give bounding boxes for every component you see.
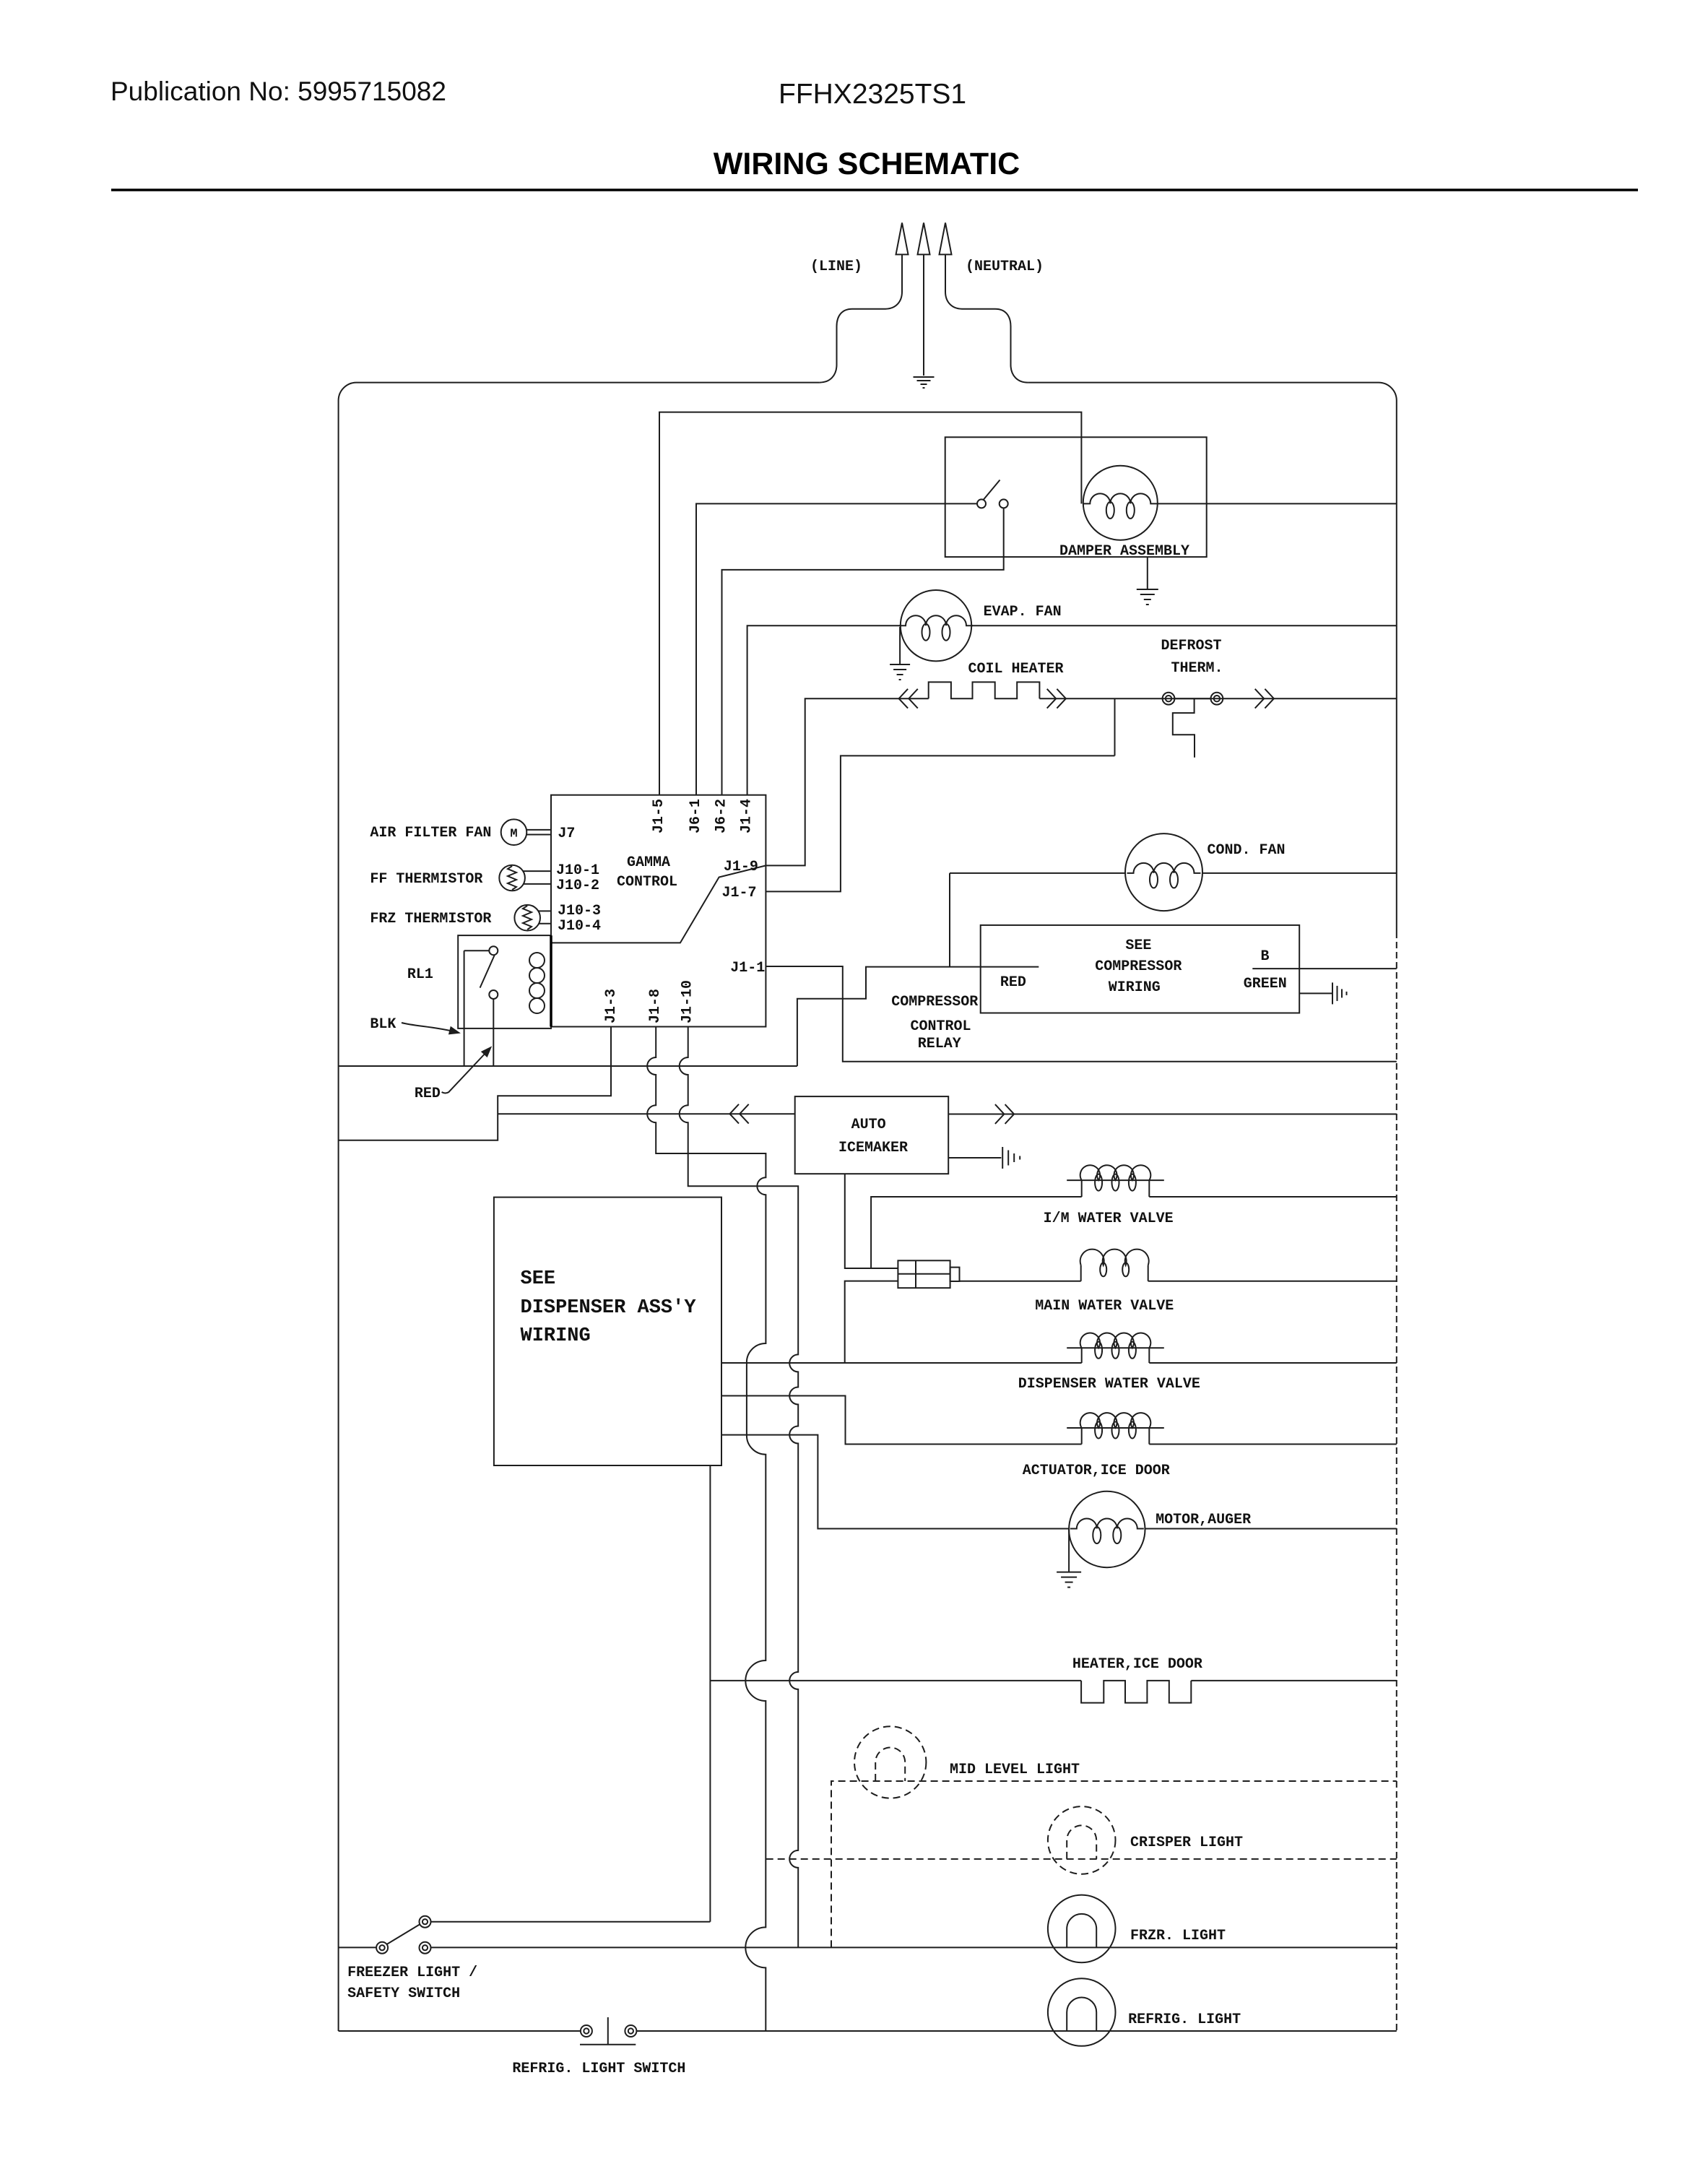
- wire freezer switch upper throw to dispenser box drop: [431, 1921, 711, 1923]
- wire compressor B terminal to right rail: [1252, 968, 1397, 969]
- svg-text:J1-10: J1-10: [680, 980, 696, 1023]
- wire damper motor to right rail: [1158, 503, 1397, 504]
- svg-text:J1-8: J1-8: [647, 989, 664, 1023]
- svg-text:GREEN: GREEN: [1244, 976, 1287, 992]
- wire defrost thermostat to right rail: [1223, 698, 1397, 699]
- wire RL1 top terminal to BLK riser: [464, 950, 490, 951]
- svg-text:B: B: [1261, 948, 1270, 965]
- svg-text:MID LEVEL LIGHT: MID LEVEL LIGHT: [950, 1762, 1080, 1778]
- relay RL1 switch: [480, 946, 498, 999]
- svg-text:EVAP. FAN: EVAP. FAN: [984, 604, 1062, 620]
- svg-text:J1-1: J1-1: [730, 960, 765, 976]
- solenoid DISPENSER WATER VALVE: [1081, 1348, 1083, 1363]
- solenoid MAIN WATER VALVE: [1080, 1265, 1082, 1281]
- plug prong arrow (NEUTRAL): [940, 223, 952, 255]
- svg-text:RELAY: RELAY: [918, 1036, 961, 1052]
- wire outer-left edge to freezer safety switch: [339, 1946, 376, 1948]
- water valve terminal block: [898, 1260, 959, 1288]
- svg-text:J6-2: J6-2: [714, 799, 730, 833]
- svg-text:HEATER,ICE DOOR: HEATER,ICE DOOR: [1072, 1656, 1202, 1673]
- svg-text:MAIN WATER VALVE: MAIN WATER VALVE: [1035, 1298, 1174, 1315]
- wire actuator feed from dispenser box: [721, 1396, 1082, 1445]
- svg-text:COND. FAN: COND. FAN: [1208, 842, 1286, 859]
- svg-text:WIRING SCHEMATIC: WIRING SCHEMATIC: [714, 147, 1020, 181]
- svg-text:J10-3: J10-3: [558, 903, 601, 919]
- wire J1-7 riser to defrost junction: [766, 755, 1114, 891]
- svg-text:M: M: [510, 828, 517, 841]
- wire J6-1 to damper switch: [696, 503, 977, 794]
- svg-text:J6-1: J6-1: [688, 799, 704, 833]
- wire freezer light rail: [431, 1946, 1397, 1948]
- svg-text:FFHX2325TS1: FFHX2325TS1: [779, 79, 966, 110]
- svg-text:SAFETY SWITCH: SAFETY SWITCH: [347, 1985, 460, 2002]
- auto icemaker box: [795, 1096, 949, 1174]
- svg-text:J10-2: J10-2: [556, 878, 599, 894]
- wire top rail left segment: [356, 382, 820, 384]
- node junction to J1-7 riser: [1114, 698, 1116, 755]
- wire damper switch to J6-2: [722, 508, 1004, 794]
- svg-text:(NEUTRAL): (NEUTRAL): [966, 259, 1044, 275]
- svg-text:FREEZER LIGHT /: FREEZER LIGHT /: [347, 1965, 477, 1981]
- refrig light switch: [580, 2017, 636, 2045]
- ground symbol at plug: [914, 376, 935, 378]
- solenoid I/M WATER VALVE: [1081, 1180, 1083, 1197]
- motor evap fan: [901, 590, 971, 661]
- wire dispenser water valve to right rail: [1149, 1362, 1397, 1364]
- svg-text:RED: RED: [1000, 974, 1026, 991]
- wire BLK rail from outer-left edge to compressor relay riser: [339, 1065, 797, 1067]
- svg-text:BLK: BLK: [370, 1016, 396, 1033]
- freezer light / safety switch: [376, 1916, 430, 1954]
- heater element HEATER,ICE DOOR: [1081, 1681, 1191, 1703]
- lamp REFRIG. LIGHT: [1048, 1978, 1116, 2046]
- svg-text:DISPENSER WATER VALVE: DISPENSER WATER VALVE: [1018, 1376, 1200, 1393]
- svg-text:ICEMAKER: ICEMAKER: [838, 1140, 908, 1156]
- wire crisper light run (optional): [766, 1858, 1397, 1860]
- thermistor FF: [499, 865, 525, 891]
- wire top rail right segment: [1028, 383, 1397, 400]
- wire J1-5 riser: [659, 412, 1081, 795]
- motor cond fan: [1125, 833, 1202, 911]
- wire defrost thermostat linkage step: [1173, 698, 1195, 757]
- dispenser assembly box: [494, 1198, 721, 1465]
- svg-text:(LINE): (LINE): [810, 259, 862, 275]
- svg-text:COMPRESSOR: COMPRESSOR: [1095, 958, 1182, 975]
- svg-text:GAMMA: GAMMA: [627, 854, 670, 871]
- wire heater ice door run: [710, 1680, 1081, 1681]
- svg-text:WIRING: WIRING: [521, 1325, 591, 1347]
- wire outer-left edge: [339, 383, 356, 2031]
- plug prong arrow (LINE): [896, 223, 909, 255]
- damper assembly box: [945, 437, 1207, 557]
- wire motor auger to right rail: [1145, 1528, 1397, 1530]
- connector chevrons into coil heater: [899, 689, 909, 709]
- wire cond fan branch riser: [949, 873, 950, 967]
- motor M air filter fan: [501, 819, 527, 845]
- svg-text:AUTO: AUTO: [851, 1117, 886, 1133]
- motor damper assembly: [1083, 466, 1158, 540]
- svg-text:COIL HEATER: COIL HEATER: [968, 661, 1064, 677]
- wire BLK riser: [464, 950, 465, 1066]
- svg-text:Publication No: 5995715082: Publication No: 5995715082: [110, 77, 446, 106]
- compressor wiring box: [981, 925, 1300, 1013]
- svg-text:REFRIG. LIGHT SWITCH: REFRIG. LIGHT SWITCH: [512, 2061, 685, 2077]
- ground symbol below evap fan: [899, 627, 901, 664]
- ground symbol below motor auger: [1068, 1529, 1070, 1572]
- wire outer-right edge (neutral rail): [1396, 400, 1397, 932]
- defrost thermostat DEFROST THERM.: [1163, 693, 1223, 705]
- svg-text:CONTROL: CONTROL: [911, 1018, 971, 1035]
- ground symbol at compressor GREEN: [1332, 982, 1333, 1004]
- svg-text:DISPENSER ASS'Y: DISPENSER ASS'Y: [521, 1297, 697, 1319]
- wire J1-1 to right rail: [766, 966, 1396, 1062]
- gamma control board bevel edge: [551, 865, 766, 943]
- motor auger MOTOR,AUGER: [1069, 1491, 1145, 1567]
- wire main water valve lead: [960, 1281, 1081, 1282]
- connector chevrons after coil heater: [1047, 689, 1057, 709]
- wire icemaker bottom drop to water valve block: [845, 1174, 898, 1268]
- wire air filter fan to J7 (double lead): [526, 829, 551, 831]
- wire FRZ thermistor to J10-3: [539, 910, 552, 911]
- wire J1-10 long run to freezer light rail: [680, 1027, 798, 1948]
- svg-text:DEFROST: DEFROST: [1161, 638, 1222, 654]
- svg-text:J1-4: J1-4: [739, 799, 755, 833]
- wire actuator to right rail: [1149, 1444, 1397, 1445]
- svg-text:J1-9: J1-9: [724, 859, 758, 875]
- wire RL1 lower terminal drop: [493, 999, 494, 1066]
- wire evap fan to right rail: [971, 625, 1397, 626]
- svg-text:I/M WATER VALVE: I/M WATER VALVE: [1044, 1211, 1174, 1227]
- wire power plug NEUTRAL prong lead: [945, 254, 1028, 382]
- ground symbol below damper assembly: [1147, 557, 1148, 589]
- svg-text:REFRIG. LIGHT: REFRIG. LIGHT: [1128, 2011, 1241, 2028]
- wire mid level light run (optional): [831, 1781, 1397, 1947]
- wire FF thermistor to J10-2: [524, 883, 552, 885]
- svg-text:CRISPER LIGHT: CRISPER LIGHT: [1130, 1835, 1243, 1851]
- ground symbol at icemaker: [1002, 1147, 1003, 1169]
- heater element COIL HEATER: [929, 682, 1040, 698]
- wire J1-4 to evap fan: [747, 625, 901, 794]
- svg-text:CONTROL: CONTROL: [617, 874, 677, 891]
- lamp MID LEVEL LIGHT (optional): [854, 1726, 926, 1798]
- wire bottom rail right segment (refrig light rail): [636, 2030, 1396, 2032]
- wire J1-8 long run to refrig light rail: [647, 1027, 766, 2032]
- connector chevrons to right rail: [1255, 689, 1265, 709]
- svg-text:DAMPER ASSEMBLY: DAMPER ASSEMBLY: [1059, 543, 1189, 560]
- svg-text:FRZR. LIGHT: FRZR. LIGHT: [1130, 1928, 1226, 1944]
- svg-text:FF THERMISTOR: FF THERMISTOR: [370, 871, 482, 888]
- svg-text:COMPRESSOR: COMPRESSOR: [891, 994, 978, 1010]
- solenoid ACTUATOR,ICE DOOR: [1081, 1428, 1083, 1445]
- wire J1-9 riser to coil heater: [766, 698, 928, 865]
- wire FRZ thermistor to J10-4: [539, 923, 552, 924]
- relay RL1 box: [458, 935, 551, 1028]
- svg-text:J7: J7: [558, 826, 575, 842]
- svg-text:MOTOR,AUGER: MOTOR,AUGER: [1156, 1512, 1251, 1528]
- svg-text:THERM.: THERM.: [1171, 660, 1223, 677]
- wire cond fan to right rail: [1202, 872, 1397, 874]
- svg-text:J10-4: J10-4: [558, 918, 601, 935]
- svg-text:RED: RED: [415, 1086, 441, 1102]
- wire power plug LINE prong lead: [820, 254, 902, 382]
- svg-text:ACTUATOR,ICE DOOR: ACTUATOR,ICE DOOR: [1023, 1463, 1170, 1479]
- svg-text:RL1: RL1: [407, 966, 433, 983]
- wire coil heater to defrost thermostat: [1039, 698, 1223, 699]
- lamp CRISPER LIGHT (optional): [1048, 1806, 1116, 1874]
- thermistor FRZ: [514, 905, 540, 931]
- wire I/M water valve to right rail: [1149, 1196, 1397, 1198]
- svg-text:FRZ THERMISTOR: FRZ THERMISTOR: [370, 911, 491, 927]
- wire icemaker to right rail: [948, 1114, 1397, 1115]
- wire bottom rail left segment (to refrig light switch): [339, 2030, 581, 2032]
- wire compressor control relay feed: [797, 967, 1039, 1066]
- wire dispenser box bottom drop to freezer safety switch: [709, 1465, 711, 1922]
- svg-text:SEE: SEE: [1125, 937, 1151, 954]
- connector chevrons icemaker left: [730, 1104, 740, 1124]
- gamma control board outline: [551, 795, 766, 1027]
- svg-text:J1-3: J1-3: [603, 989, 620, 1023]
- wire compressor GREEN terminal to ground: [1299, 992, 1332, 994]
- connector chevrons icemaker right: [995, 1104, 1005, 1124]
- wire main water valve to right rail: [1148, 1281, 1397, 1282]
- wire icemaker ground lead: [948, 1157, 1001, 1159]
- wire I/M water valve left lead: [871, 1197, 1082, 1268]
- wire dispenser water valve run: [721, 1362, 1082, 1364]
- wire valve block bottom to dispenser valve junction: [845, 1281, 898, 1363]
- damper door switch: [977, 480, 1008, 508]
- relay RL1 coil: [529, 953, 545, 1013]
- svg-text:WIRING: WIRING: [1109, 979, 1161, 996]
- plug prong arrow (ground): [918, 223, 930, 255]
- wire heater ice door to right rail: [1191, 1680, 1397, 1681]
- svg-text:SEE: SEE: [521, 1268, 556, 1290]
- svg-text:AIR FILTER FAN: AIR FILTER FAN: [370, 825, 491, 841]
- wire J1-3 to outer-left edge: [339, 1027, 611, 1140]
- header rule: [111, 189, 1638, 191]
- wire FF thermistor to J10-1: [524, 870, 552, 872]
- svg-text:J10-1: J10-1: [556, 862, 599, 879]
- wire motor auger feed from dispenser box: [721, 1435, 1069, 1529]
- svg-text:J1-5: J1-5: [651, 799, 667, 833]
- wire icemaker feed with connector: [498, 1113, 794, 1114]
- wire power plug ground prong lead: [923, 254, 924, 376]
- lamp FRZR. LIGHT: [1048, 1895, 1116, 1963]
- svg-text:J1-7: J1-7: [722, 885, 757, 901]
- wire cond fan left lead: [950, 872, 1125, 874]
